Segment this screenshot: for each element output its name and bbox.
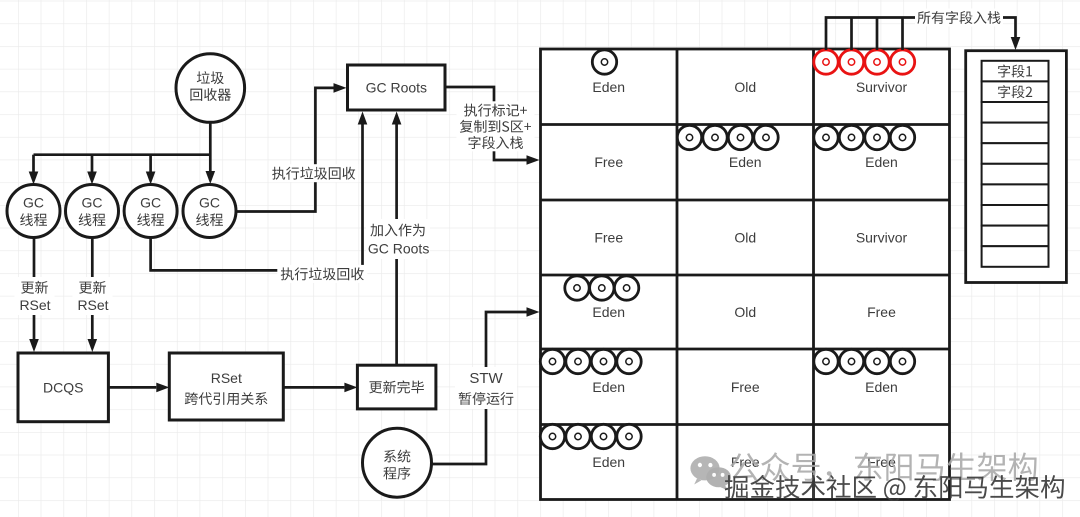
- svg-text:Survivor: Survivor: [856, 79, 908, 95]
- svg-text:Free: Free: [594, 230, 623, 246]
- svg-text:Free: Free: [867, 304, 896, 320]
- wire GC thread2 to DCQS: [91, 238, 94, 340]
- label 执行标记+复制到S区+字段入栈: [457, 101, 535, 151]
- wire branch to GC thread 2: [91, 155, 94, 172]
- stack outer box: [966, 51, 1067, 283]
- svg-text:GC Roots: GC Roots: [366, 80, 427, 96]
- object circles row1 Eden: [592, 50, 616, 74]
- wire field stub 4: [901, 18, 904, 51]
- wire fields to stack (所有字段入栈): [826, 18, 1016, 51]
- circle GC 线程 thread 4: [183, 185, 236, 238]
- object circles row4 Eden: [565, 276, 639, 300]
- svg-text:Eden: Eden: [592, 79, 625, 95]
- label 更新 RSet right: [73, 277, 113, 315]
- label STW 暂停运行: [455, 367, 517, 409]
- wire collector to threads trunk: [209, 122, 212, 171]
- wire GC thread1 to DCQS: [33, 238, 36, 340]
- svg-text:GC Roots: GC Roots: [368, 241, 429, 257]
- box 更新完毕: [357, 365, 436, 409]
- box DCQS: [18, 353, 108, 422]
- stack label 字段1: [998, 65, 1032, 78]
- wire branch to GC thread 1: [32, 155, 35, 172]
- box RSet 跨代引用关系: [169, 353, 283, 420]
- box GC Roots: [348, 65, 446, 110]
- watermark wechat icon bubble 2: [706, 467, 731, 490]
- stack label 字段2: [998, 85, 1032, 98]
- stack cells: [982, 61, 1049, 267]
- wire GC thread3 to GC Roots bottom: [151, 125, 363, 271]
- svg-text:Eden: Eden: [592, 304, 625, 320]
- svg-text:Eden: Eden: [865, 379, 898, 395]
- wire 更新完毕 to GC Roots bottom: [395, 125, 398, 366]
- wire RSet box to 更新完毕: [283, 386, 344, 389]
- object circles row6 Eden: [540, 424, 641, 448]
- object circles row2 Eden col3: [814, 125, 915, 149]
- svg-text:Survivor: Survivor: [856, 230, 908, 246]
- svg-text:GC: GC: [23, 195, 44, 211]
- svg-text:GC: GC: [140, 195, 161, 211]
- svg-text:Eden: Eden: [729, 154, 762, 170]
- watermark text 公众号，东阳马生架构 (light): [730, 452, 1037, 482]
- svg-text:Old: Old: [734, 230, 756, 246]
- svg-text:RSet: RSet: [19, 297, 50, 313]
- circle GC 线程 thread 3: [124, 185, 177, 238]
- svg-text:GC: GC: [199, 195, 220, 211]
- watermark text 掘金技术社区 @ 东阳马生架构 (dark): [725, 475, 1064, 501]
- wire branch horizontal: [34, 153, 211, 156]
- svg-text:Free: Free: [594, 154, 623, 170]
- svg-text:Eden: Eden: [865, 154, 898, 170]
- object circles row1 Survivor (red, fields pushed): [814, 50, 915, 74]
- label 执行垃圾回收 upper: [269, 164, 359, 182]
- object circles row2 Eden col2: [677, 125, 778, 149]
- wire field stub 3: [876, 18, 879, 51]
- object circles row5 Eden col1: [540, 349, 641, 373]
- label 执行垃圾回收 lower: [277, 265, 367, 283]
- wire 系统程序 to heap row4 (STW): [432, 312, 527, 464]
- wire GC Roots to heap row2 (执行标记): [445, 87, 527, 160]
- label 加入作为 GC Roots: [366, 219, 430, 259]
- label 更新 RSet left: [15, 277, 55, 315]
- watermark wechat icon bubble 1: [690, 456, 719, 484]
- svg-text:RSet: RSet: [211, 370, 242, 386]
- svg-text:GC: GC: [82, 195, 103, 211]
- wire branch to GC thread 3: [149, 155, 152, 172]
- heap region table: [541, 49, 950, 500]
- circle GC 线程 thread 2: [66, 185, 119, 238]
- wire field stub 2: [850, 18, 853, 51]
- svg-text:Eden: Eden: [592, 454, 625, 470]
- svg-text:STW: STW: [469, 370, 503, 387]
- label 所有字段入栈: [915, 9, 1003, 27]
- object circles row5 Eden col3: [814, 349, 915, 373]
- circle 垃圾回收器 (garbage collector): [176, 54, 245, 123]
- circle 系统程序 (system program): [363, 428, 432, 497]
- svg-text:Free: Free: [731, 379, 760, 395]
- wire GC thread4 to GC Roots left: [236, 88, 334, 212]
- svg-text:RSet: RSet: [77, 297, 108, 313]
- svg-text:Eden: Eden: [592, 379, 625, 395]
- circle GC 线程 thread 1: [7, 185, 60, 238]
- wire DCQS to RSet box: [108, 386, 156, 389]
- svg-text:Old: Old: [734, 79, 756, 95]
- svg-text:DCQS: DCQS: [43, 379, 83, 395]
- svg-text:Old: Old: [734, 304, 756, 320]
